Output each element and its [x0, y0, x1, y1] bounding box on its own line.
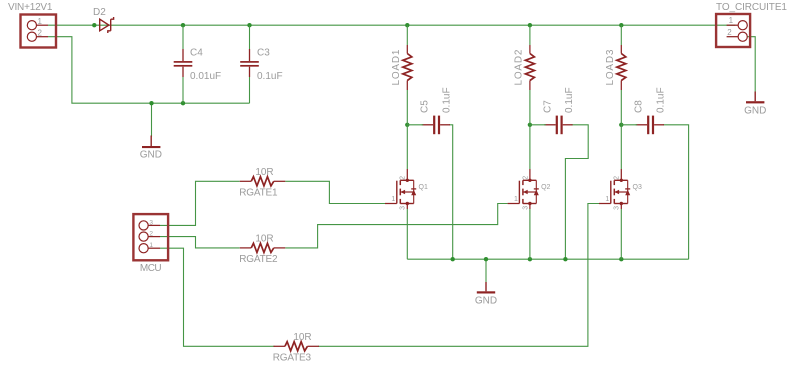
capacitor C8: [636, 116, 664, 135]
junction GND2 stub: [484, 257, 488, 261]
wire GND2 stub: [485, 259, 487, 282]
junction C7 to ground rail: [563, 257, 567, 261]
transistor Q2 drain dot: [528, 179, 531, 182]
svg-text:Q3: Q3: [633, 184, 642, 191]
junction C3 top: [247, 23, 251, 27]
junction Q3 source: [619, 257, 623, 261]
transistor Q2 body diode: [534, 190, 539, 196]
wire MCU pin2 to RGATE2: [160, 237, 240, 248]
ground GND2 symbol: [477, 282, 495, 294]
resistor RGATE2 left pin: [240, 247, 252, 249]
svg-text:1: 1: [514, 196, 518, 203]
transistor Q1 body diode: [411, 190, 416, 196]
wire LOAD1 bottom lead: [406, 90, 408, 125]
svg-text:0.1uF: 0.1uF: [442, 87, 453, 113]
resistor RGATE3 zigzag: [285, 342, 308, 351]
wire C8 right plate to ground rail right corner: [663, 125, 689, 259]
svg-text:D2: D2: [93, 7, 106, 18]
svg-text:Q1: Q1: [419, 184, 428, 191]
wire LOAD2 top lead: [529, 25, 531, 45]
junction Q2 source: [528, 257, 532, 261]
svg-text:GND: GND: [140, 149, 162, 160]
resistor RGATE3 left pin: [273, 345, 285, 347]
wire VIN pin2 to bottom gnd rail: [48, 37, 250, 104]
resistor RGATE2 zigzag: [251, 243, 274, 252]
connector J1 pin 1 stub: [37, 24, 49, 26]
wire C7 left lead: [530, 124, 546, 126]
svg-text:2: 2: [149, 231, 153, 238]
svg-text:RGATE1: RGATE1: [239, 187, 278, 198]
wire LOAD2 bottom lead: [529, 90, 531, 125]
connector MCU body: [133, 214, 168, 260]
wire C7 right plate stair to ground rail: [565, 125, 588, 259]
svg-text:3: 3: [400, 206, 407, 210]
svg-text:1: 1: [38, 17, 43, 26]
svg-text:TO_CIRCUITE1: TO_CIRCUITE1: [716, 2, 787, 13]
resistor RGATE1 left pin: [240, 180, 252, 182]
capacitor C3: [240, 49, 259, 77]
transistor Q3 drain dot: [620, 179, 623, 182]
wire Q3 drain: [620, 125, 622, 169]
wire TO_CIRCUITE pin2 to GND3: [747, 37, 755, 92]
svg-text:10R: 10R: [293, 332, 311, 343]
transistor Q1 gate pin: [385, 203, 397, 205]
svg-text:1: 1: [729, 16, 734, 25]
wire MCU pin3 to RGATE1: [160, 181, 240, 225]
junction LOAD2/C7/Q2 drain node: [528, 123, 532, 127]
connector TO_CIRCUITE1 pin 1 circle: [738, 21, 747, 30]
junction LOAD2 top: [528, 23, 532, 27]
svg-text:2: 2: [400, 176, 407, 180]
transistor Q2 body arrow: [523, 190, 528, 195]
junction GND1 stub: [149, 101, 153, 105]
transistor Q3 body diode: [625, 190, 630, 196]
ground GND1 symbol: [142, 136, 160, 149]
connector MCU pin 3 circle: [139, 221, 148, 230]
svg-text:Q2: Q2: [541, 184, 550, 191]
svg-text:C4: C4: [190, 48, 203, 59]
resistor LOAD3 lead bottom: [620, 81, 622, 91]
svg-text:10R: 10R: [255, 167, 273, 178]
svg-text:0.1uF: 0.1uF: [656, 87, 667, 113]
connector J1 pin 2 stub: [37, 36, 49, 38]
wire MCU pin1 to RGATE3: [160, 248, 275, 346]
svg-text:1: 1: [391, 196, 395, 203]
transistor Q3 gate pin: [599, 203, 611, 205]
svg-text:2: 2: [614, 176, 621, 180]
svg-text:C8: C8: [634, 100, 645, 113]
svg-text:3: 3: [522, 206, 529, 210]
svg-text:0.1uF: 0.1uF: [257, 71, 283, 82]
resistor RGATE1 zigzag: [251, 177, 274, 186]
svg-text:LOAD2: LOAD2: [513, 49, 524, 86]
wire C4 top lead: [182, 25, 184, 49]
svg-text:GND: GND: [744, 106, 766, 117]
wire LOAD3 bottom lead: [620, 90, 622, 125]
svg-text:RGATE2: RGATE2: [239, 254, 278, 265]
connector MCU pin 1 stub: [148, 247, 160, 249]
wire C4 bottom lead: [182, 77, 184, 103]
junction LOAD1/C5/Q1 drain node: [405, 123, 409, 127]
svg-text:0.01uF: 0.01uF: [190, 71, 221, 82]
wire LOAD3 top lead: [620, 25, 622, 45]
wire LOAD1 top lead: [406, 25, 408, 45]
connector MCU pin 1 circle: [139, 244, 148, 253]
transistor Q2 source dot: [528, 202, 531, 205]
transistor Q1 drain pin: [406, 169, 408, 180]
transistor Q1 drain dot: [406, 179, 409, 182]
transistor Q3 drain pin: [620, 169, 622, 180]
resistor RGATE2 right pin: [274, 247, 286, 249]
svg-text:1: 1: [605, 196, 609, 203]
connector MCU pin 2 stub: [148, 236, 160, 238]
transistor Q1 source dot: [406, 202, 409, 205]
connector MCU pin 2 circle: [139, 232, 148, 241]
resistor LOAD2 lead bottom: [529, 81, 531, 91]
resistor LOAD1 zigzag: [403, 54, 412, 81]
connector TO_CIRCUITE1 pin 1 stub: [727, 24, 739, 26]
wire source ground rail: [407, 258, 688, 260]
transistor Q1 body arrow: [401, 190, 406, 195]
svg-text:GND: GND: [475, 295, 497, 306]
wire C5 right plate to ground rail: [449, 125, 453, 259]
wire GND1 stub: [151, 103, 153, 136]
transistor Q2 drain pin: [529, 169, 531, 180]
connector TO_CIRCUITE1 body: [716, 14, 750, 47]
wire Q3 source: [620, 209, 622, 259]
capacitor C7: [544, 116, 572, 135]
resistor LOAD3 zigzag: [617, 54, 626, 81]
svg-text:C5: C5: [420, 100, 431, 113]
svg-text:3: 3: [149, 219, 153, 226]
wire RGATE3 to Q3 gate: [318, 204, 599, 347]
resistor RGATE3 right pin: [307, 345, 319, 347]
svg-text:MCU: MCU: [140, 263, 162, 274]
wire top power rail: [48, 24, 735, 26]
junction C4 top: [181, 23, 185, 27]
resistor RGATE1 right pin: [274, 180, 286, 182]
transistor Q1 symbol: [397, 180, 414, 203]
svg-text:LOAD3: LOAD3: [605, 49, 616, 86]
svg-text:C7: C7: [542, 100, 553, 113]
junction LOAD3/C8/Q3 drain node: [619, 123, 623, 127]
svg-text:2: 2: [727, 28, 732, 37]
transistor Q1 source pin: [406, 204, 408, 210]
wire C5 left lead: [407, 124, 423, 126]
ground GND3 symbol: [746, 92, 764, 104]
svg-text:1: 1: [149, 242, 153, 249]
transistor Q2 source pin: [529, 204, 531, 210]
wire RGATE2 to Q2 gate: [285, 204, 507, 248]
wire C3 top lead: [249, 25, 251, 49]
svg-text:10R: 10R: [255, 234, 273, 245]
resistor LOAD1 lead bottom: [406, 81, 408, 91]
capacitor C5: [422, 116, 450, 135]
wire Q1 source: [406, 209, 408, 259]
wire C8 left lead: [621, 124, 637, 126]
svg-text:2: 2: [522, 176, 529, 180]
svg-text:VIN+12V1: VIN+12V1: [8, 2, 53, 13]
transistor Q3 symbol: [611, 180, 628, 203]
transistor Q3 source pin: [620, 204, 622, 210]
svg-text:LOAD1: LOAD1: [391, 49, 402, 86]
resistor LOAD2 zigzag: [525, 54, 534, 81]
svg-text:0.1uF: 0.1uF: [564, 87, 575, 113]
capacitor C4: [174, 49, 193, 77]
transistor Q3 body arrow: [615, 190, 620, 195]
diode D2 schottky symbol: [100, 17, 114, 33]
connector TO_CIRCUITE1 pin 2 circle: [738, 32, 747, 41]
wire C3 bottom riser: [249, 77, 251, 103]
svg-text:C3: C3: [257, 48, 270, 59]
svg-text:RGATE3: RGATE3: [273, 352, 312, 363]
junction LOAD3 top: [619, 23, 623, 27]
wire RGATE1 to Q1 gate: [285, 181, 385, 203]
wire Q2 drain: [529, 125, 531, 169]
transistor Q2 symbol: [519, 180, 536, 203]
connector J1 pin 2 circle: [27, 32, 36, 41]
junction LOAD1 top: [405, 23, 409, 27]
svg-text:2: 2: [38, 29, 43, 38]
svg-text:3: 3: [614, 206, 621, 210]
junction C5 to ground rail: [451, 257, 455, 261]
transistor Q2 gate pin: [508, 203, 520, 205]
junction C4 bottom: [181, 101, 185, 105]
transistor Q3 source dot: [620, 202, 623, 205]
connector MCU pin 3 stub: [148, 224, 160, 226]
wire Q1 drain: [406, 125, 408, 169]
connector J1 VIN+12V1 body: [21, 15, 57, 48]
connector J1 pin 1 circle: [27, 21, 36, 30]
connector TO_CIRCUITE1 pin 2 stub: [727, 36, 739, 38]
junction at D2 anode: [92, 23, 96, 27]
wire Q2 source: [529, 209, 531, 259]
